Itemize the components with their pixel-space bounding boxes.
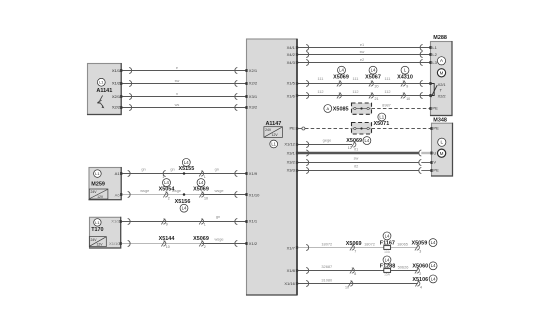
connector X5054 separation pin 2 with reference circle L4 bbox=[163, 179, 171, 187]
control unit M259 box bbox=[89, 168, 121, 200]
junction dot on X1/9 row bbox=[183, 172, 186, 175]
connector X5067 separation on wire 112 pin 21 bbox=[369, 93, 373, 99]
wire A1147 X4 to M288 L2 bbox=[297, 54, 431, 56]
svg-text:e2: e2 bbox=[360, 57, 364, 62]
A1141 sheet reference circle L1 bbox=[97, 78, 105, 86]
svg-text:L1: L1 bbox=[95, 171, 100, 176]
svg-text:X5106: X5106 bbox=[412, 277, 428, 283]
svg-text:M288: M288 bbox=[433, 35, 447, 41]
connector label X5069 with reference circle L4 bbox=[338, 66, 346, 74]
A1147 sheet reference circle L1 bbox=[270, 140, 278, 148]
wire rt1 A1147 X3/1 to M348 U thick bbox=[297, 152, 419, 154]
svg-text:e: e bbox=[176, 65, 178, 70]
svg-text:X2/1: X2/1 bbox=[112, 94, 121, 99]
svg-text:L3: L3 bbox=[432, 60, 437, 65]
M288 thermal contact symbol bbox=[431, 84, 438, 98]
splice X5155 with reference circle L4 bbox=[182, 158, 190, 166]
svg-text:X2/2: X2/2 bbox=[438, 93, 446, 98]
svg-text:X5155: X5155 bbox=[179, 166, 195, 172]
M288 motor circle M bbox=[437, 69, 445, 77]
svg-text:112: 112 bbox=[317, 89, 323, 94]
shield box X5071 bbox=[352, 123, 372, 135]
svg-text:X4310: X4310 bbox=[397, 75, 413, 81]
control unit A1141 box bbox=[88, 64, 122, 115]
svg-text:wsge: wsge bbox=[214, 188, 223, 193]
svg-text:L2: L2 bbox=[432, 52, 437, 57]
svg-text:X5069: X5069 bbox=[333, 75, 349, 81]
wire sw A1147 X3/2 to M348 V bbox=[297, 162, 419, 164]
pin ticks T170 right edge bbox=[120, 220, 122, 223]
svg-text:PE: PE bbox=[432, 106, 438, 111]
svg-text:L1: L1 bbox=[379, 114, 384, 119]
svg-text:gn: gn bbox=[216, 214, 220, 219]
svg-text:X1/9: X1/9 bbox=[249, 171, 258, 176]
svg-text:gn: gn bbox=[141, 167, 145, 172]
M348 lamp circle L bbox=[438, 138, 446, 146]
svg-text:L4: L4 bbox=[371, 68, 376, 73]
svg-text:X1/5: X1/5 bbox=[287, 81, 296, 86]
svg-text:sw: sw bbox=[354, 156, 359, 161]
svg-text:50626: 50626 bbox=[398, 264, 409, 269]
svg-text:X1/2: X1/2 bbox=[112, 81, 121, 86]
svg-text:X5144: X5144 bbox=[159, 236, 175, 242]
svg-text:wsge: wsge bbox=[214, 237, 223, 242]
svg-text:wsge: wsge bbox=[172, 188, 181, 193]
svg-text:L4: L4 bbox=[365, 138, 370, 143]
svg-text:7: 7 bbox=[354, 250, 356, 254]
svg-text:V: V bbox=[433, 159, 436, 164]
connector X5069 separation on wire 111 bbox=[337, 81, 341, 87]
svg-text:18072: 18072 bbox=[364, 242, 375, 247]
shield box X5085 bbox=[352, 103, 372, 114]
svg-text:X1/1: X1/1 bbox=[112, 68, 121, 73]
connector separation pin 1 on X1/9 row bbox=[163, 170, 165, 176]
svg-text:21: 21 bbox=[375, 97, 379, 101]
transformer T170 box bbox=[90, 217, 121, 248]
pin ticks M259 right edge bbox=[120, 172, 122, 175]
T170 voltage icon 24V/12V bbox=[89, 237, 106, 247]
svg-text:PE: PE bbox=[289, 126, 295, 131]
connector X4310 separation on wire 112 pin 10 bbox=[401, 93, 405, 99]
wire A1147 X4 to M288 L1 bbox=[297, 47, 431, 49]
svg-text:32687: 32687 bbox=[321, 264, 332, 269]
svg-text:12V: 12V bbox=[272, 133, 279, 137]
svg-text:X1/7: X1/7 bbox=[287, 245, 296, 250]
svg-text:24V: 24V bbox=[265, 128, 272, 132]
svg-text:L1: L1 bbox=[432, 45, 437, 50]
svg-text:112: 112 bbox=[352, 89, 358, 94]
svg-text:L4: L4 bbox=[385, 257, 390, 262]
svg-text:L1: L1 bbox=[99, 80, 103, 85]
svg-text:20: 20 bbox=[375, 84, 379, 88]
shield drain wire 8987 to M288 PE bbox=[372, 108, 431, 110]
svg-text:31080: 31080 bbox=[321, 277, 333, 282]
svg-text:X1/10: X1/10 bbox=[109, 241, 120, 246]
svg-text:4: 4 bbox=[420, 285, 422, 289]
wire X5071 to M348 PE dashed bbox=[372, 128, 432, 130]
M348 motor circle M bbox=[438, 149, 446, 157]
svg-text:X3/1: X3/1 bbox=[249, 94, 258, 99]
svg-text:X3/2: X3/2 bbox=[249, 105, 258, 110]
svg-text:L4: L4 bbox=[164, 180, 169, 185]
svg-text:X5069: X5069 bbox=[346, 138, 362, 144]
connector separation pin 8 on X1/8 row bbox=[350, 268, 354, 274]
connector X5069 separation pin 10 with reference circle L4 bbox=[197, 179, 205, 187]
svg-text:X4/1: X4/1 bbox=[287, 45, 296, 50]
svg-text:L4: L4 bbox=[385, 233, 390, 238]
wire 18072 A1147 X1/7 bbox=[297, 247, 418, 249]
M259 sheet reference circle L1 bbox=[94, 170, 102, 178]
svg-text:112: 112 bbox=[384, 89, 390, 94]
wire A1141 X1/1-X2/1 bbox=[121, 70, 246, 72]
pin ticks M348 left edge bbox=[430, 127, 432, 130]
wire T170 X1/2 to A1147 X1/1 bbox=[121, 221, 246, 223]
svg-text:rt2: rt2 bbox=[354, 164, 359, 169]
svg-text:X3/3: X3/3 bbox=[287, 167, 296, 172]
svg-text:rt1: rt1 bbox=[354, 147, 359, 152]
svg-text:2: 2 bbox=[204, 245, 206, 249]
svg-text:e1: e1 bbox=[360, 42, 364, 47]
svg-text:A1147: A1147 bbox=[265, 121, 281, 127]
wire wsge M259 A6 to A1147 X1/10 bbox=[121, 194, 202, 196]
svg-text:24V: 24V bbox=[91, 190, 98, 194]
svg-text:12V: 12V bbox=[96, 242, 103, 246]
svg-text:X1/1: X1/1 bbox=[249, 218, 258, 223]
svg-text:sw: sw bbox=[175, 78, 180, 83]
pin ticks M288 left edge bbox=[429, 46, 431, 49]
svg-text:n: n bbox=[176, 91, 178, 96]
svg-text:1: 1 bbox=[204, 175, 206, 179]
svg-text:X5060: X5060 bbox=[412, 263, 428, 269]
wire rt2 A1147 X3/3 to M348 PE bbox=[297, 170, 419, 172]
svg-text:X1/8: X1/8 bbox=[287, 268, 296, 273]
svg-text:X1/2: X1/2 bbox=[111, 218, 120, 223]
reference circle A for shield X5085 bbox=[324, 105, 332, 113]
svg-text:8: 8 bbox=[354, 272, 356, 276]
svg-text:1: 1 bbox=[162, 175, 164, 179]
svg-text:X3/1: X3/1 bbox=[287, 150, 296, 155]
svg-text:X5067: X5067 bbox=[365, 75, 381, 81]
svg-text:X5071: X5071 bbox=[374, 121, 390, 127]
svg-text:15A: 15A bbox=[384, 272, 391, 276]
svg-text:X5156: X5156 bbox=[175, 199, 191, 205]
svg-text:X1/6: X1/6 bbox=[287, 93, 296, 98]
fuse F1167 with reference circle L4 bbox=[383, 232, 391, 240]
svg-text:10: 10 bbox=[406, 97, 410, 101]
connector label X4310 with reference circle L bbox=[401, 66, 409, 74]
wire gn M259 A1 to A1147 X1/9 bbox=[121, 173, 246, 175]
T170 sheet reference circle L1 bbox=[94, 219, 101, 226]
svg-text:L4: L4 bbox=[431, 263, 436, 268]
A1147 voltage converter icon 24V/12V bbox=[264, 127, 283, 138]
wire A1147 X1/12 to connector X5069 pin 12 bbox=[297, 144, 352, 146]
wire A1141 X2/1-X3/1 bbox=[121, 96, 246, 98]
svg-text:X5059: X5059 bbox=[412, 241, 428, 247]
reference circle L1 for X5071 bbox=[378, 113, 386, 121]
svg-text:2: 2 bbox=[168, 197, 170, 201]
svg-text:A: A bbox=[440, 58, 443, 63]
connector X5067 separation on wire 111 pin 20 bbox=[369, 81, 373, 87]
svg-text:wsge: wsge bbox=[140, 188, 149, 193]
svg-text:gn: gn bbox=[215, 167, 219, 172]
wire 32687 A1147 X1/8 bbox=[297, 270, 418, 272]
svg-text:X3/2: X3/2 bbox=[287, 159, 296, 164]
svg-text:X5085: X5085 bbox=[333, 106, 349, 112]
svg-text:111: 111 bbox=[385, 76, 391, 81]
connector separation pin 1 right on X1/9 row bbox=[199, 171, 203, 177]
connector X5069 separation on wire 112 bbox=[337, 93, 341, 99]
svg-text:X1/12: X1/12 bbox=[284, 142, 295, 147]
motor M288 box bbox=[431, 42, 453, 116]
motor M348 box bbox=[432, 123, 453, 176]
svg-text:X5069: X5069 bbox=[193, 236, 209, 242]
svg-text:10: 10 bbox=[166, 245, 170, 249]
svg-text:8987: 8987 bbox=[382, 102, 391, 107]
svg-text:2: 2 bbox=[419, 272, 421, 276]
svg-text:U: U bbox=[433, 150, 436, 155]
svg-text:A: A bbox=[326, 106, 329, 111]
svg-text:X2/1: X2/1 bbox=[249, 68, 258, 73]
svg-text:M: M bbox=[440, 70, 444, 75]
svg-text:9: 9 bbox=[166, 223, 168, 227]
svg-text:gn: gn bbox=[170, 167, 174, 172]
svg-text:T170: T170 bbox=[91, 227, 103, 233]
svg-text:10: 10 bbox=[345, 286, 349, 290]
svg-text:10: 10 bbox=[204, 197, 208, 201]
svg-text:18065: 18065 bbox=[397, 242, 408, 247]
wire 111 A1147 X1/5 to M288 X2/1 bbox=[297, 83, 431, 85]
splice X5156 with reference circle L4 below bbox=[183, 193, 186, 196]
svg-text:X1/16: X1/16 bbox=[284, 281, 295, 286]
svg-text:X2/2: X2/2 bbox=[249, 81, 258, 86]
svg-text:111: 111 bbox=[318, 76, 324, 81]
svg-text:24V: 24V bbox=[91, 238, 98, 242]
connector separation pin 10 on X1/16 row bbox=[348, 281, 352, 287]
M259 voltage icon 24V/12V bbox=[89, 189, 108, 199]
connector label X5067 with reference circle L4 bbox=[369, 66, 377, 74]
svg-text:PE: PE bbox=[433, 167, 439, 172]
svg-text:10A: 10A bbox=[384, 250, 391, 254]
svg-text:L1: L1 bbox=[95, 220, 100, 225]
wire A1147 X4 to M288 L3 bbox=[297, 62, 431, 64]
svg-text:A1141: A1141 bbox=[96, 88, 112, 94]
svg-text:12: 12 bbox=[348, 146, 352, 150]
svg-text:X1/2: X1/2 bbox=[249, 241, 258, 246]
svg-text:L1: L1 bbox=[271, 141, 276, 146]
wire A1141 X1/2-X2/2 bbox=[121, 83, 246, 85]
fuse F1288 with reference circle L4 bbox=[383, 256, 391, 264]
svg-text:18072: 18072 bbox=[321, 242, 332, 247]
wire A1141 X2/2-X3/2 bbox=[121, 107, 246, 109]
M288 ammeter circle A bbox=[437, 57, 445, 65]
svg-text:X4/3: X4/3 bbox=[287, 60, 296, 65]
wire A1147 PE dashed bbox=[297, 128, 302, 130]
svg-text:3: 3 bbox=[419, 250, 421, 254]
svg-text:X2/1: X2/1 bbox=[438, 82, 446, 87]
svg-text:ws: ws bbox=[175, 102, 180, 107]
svg-text:A1: A1 bbox=[115, 171, 121, 176]
svg-text:A6: A6 bbox=[115, 192, 121, 197]
pin ticks A1141 right edge bbox=[120, 69, 122, 72]
svg-text:1: 1 bbox=[204, 223, 206, 227]
A1141 pedal sensor symbol bbox=[97, 95, 103, 106]
svg-text:X2/2: X2/2 bbox=[112, 105, 121, 110]
connector separation pin 1 on X1/1 row right bbox=[199, 219, 203, 225]
svg-text:X4/2: X4/2 bbox=[287, 52, 296, 57]
svg-text:L4: L4 bbox=[431, 240, 436, 245]
svg-text:X1/10: X1/10 bbox=[249, 192, 260, 197]
svg-text:X5069: X5069 bbox=[193, 186, 209, 192]
central control unit A1147 box bbox=[247, 39, 298, 295]
svg-text:gege: gege bbox=[323, 138, 332, 143]
svg-text:L4: L4 bbox=[182, 206, 187, 211]
svg-text:111: 111 bbox=[353, 76, 359, 81]
svg-text:9: 9 bbox=[406, 84, 408, 88]
svg-text:PE: PE bbox=[433, 126, 439, 131]
pin ticks A1147 left edge bbox=[245, 69, 247, 72]
svg-text:L4: L4 bbox=[199, 180, 204, 185]
svg-text:12V: 12V bbox=[97, 195, 104, 199]
wire 112 A1147 X1/6 to M288 X2/2 bbox=[297, 95, 431, 97]
svg-text:L4: L4 bbox=[431, 276, 436, 281]
svg-text:M: M bbox=[440, 151, 444, 156]
wire 31080 A1147 X1/16 bbox=[297, 283, 418, 285]
wire T170 X1/10 to A1147 X1/2 bbox=[121, 243, 202, 245]
connector X4310 separation on wire 111 pin 9 bbox=[401, 81, 405, 87]
svg-text:L4: L4 bbox=[339, 68, 344, 73]
svg-text:sw: sw bbox=[360, 49, 365, 54]
svg-text:L4: L4 bbox=[184, 160, 189, 165]
svg-text:M259: M259 bbox=[91, 182, 105, 188]
pin ticks A1147 right edge bbox=[296, 46, 298, 49]
connector separation pin 9 on X1/1 row bbox=[161, 219, 165, 225]
